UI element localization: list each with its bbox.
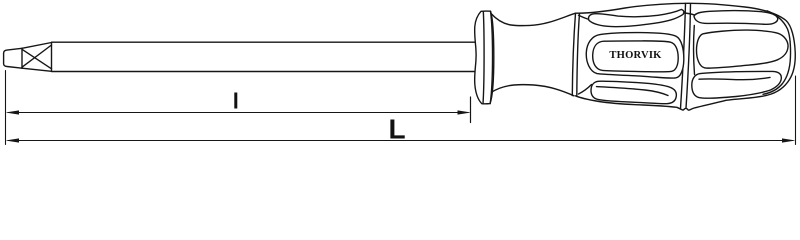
taper top line xyxy=(22,43,52,49)
neck top edge xyxy=(491,13,576,25)
grip oval bottom-right outer xyxy=(692,71,782,98)
right inner panel xyxy=(697,30,789,68)
ferrule inner band line xyxy=(483,11,484,104)
taper bottom line xyxy=(22,68,52,71)
connector seam to oval top xyxy=(579,15,588,19)
left outer stadium xyxy=(586,33,684,79)
grip oval top-left xyxy=(589,9,684,26)
ferrule right band line xyxy=(490,11,492,103)
screwdriver flat tip block xyxy=(4,48,22,68)
connector between top ovals xyxy=(684,13,695,15)
grip oval top-right xyxy=(694,11,778,25)
junction seam right xyxy=(577,14,580,97)
dimension line l xyxy=(8,112,468,114)
taper cross line lower-to-upper xyxy=(22,45,52,67)
right panel left-end seam line xyxy=(693,26,696,75)
wire: right extension line xyxy=(795,76,797,145)
grip oval bottom-right inner top line xyxy=(699,77,770,79)
svg-text:THORVIK: THORVIK xyxy=(609,50,662,61)
svg-text:l: l xyxy=(233,89,239,114)
svg-text:L: L xyxy=(388,113,405,144)
shaft xyxy=(52,42,476,71)
handle main body outline xyxy=(576,3,796,110)
grip oval bottom-left outer xyxy=(591,81,676,104)
connector seam to oval bottom xyxy=(579,85,592,95)
THORVIK stadium xyxy=(593,41,679,72)
neck bottom edge xyxy=(491,85,574,96)
handle mid seam left line xyxy=(681,3,686,108)
junction seam left xyxy=(572,13,575,95)
dimension line L xyxy=(8,140,793,142)
handle cap inner line xyxy=(763,11,791,95)
wire: tick at handle start xyxy=(470,97,472,123)
grip oval bottom-left inner top line xyxy=(597,87,669,96)
handle mid seam right line xyxy=(686,4,691,109)
ferrule outline xyxy=(475,11,494,104)
wire: left extension line xyxy=(5,71,7,145)
taper cross line upper-to-lower xyxy=(22,49,52,69)
